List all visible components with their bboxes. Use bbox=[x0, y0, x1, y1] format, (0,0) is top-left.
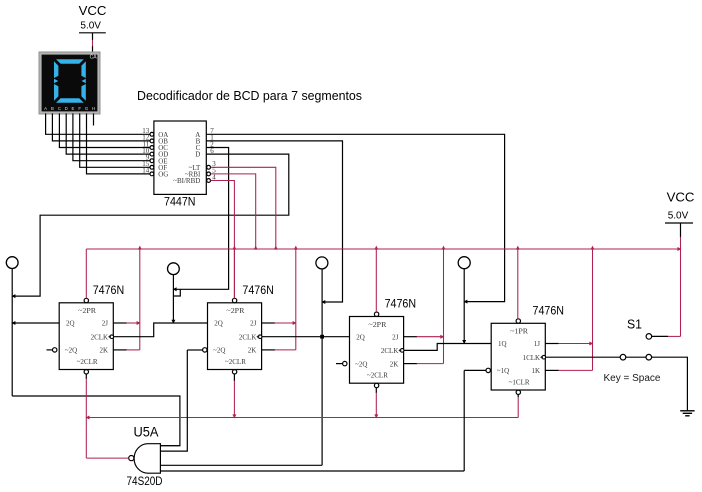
wire U4 J input bbox=[545, 343, 559, 345]
svg-text:~BI/RBD: ~BI/RBD bbox=[173, 177, 200, 185]
flip-flop U2 ~2PR bubble bbox=[232, 298, 236, 302]
junction clear bus left bbox=[86, 416, 90, 420]
svg-text:7476N: 7476N bbox=[385, 297, 417, 311]
junction VCC bus x=255.7 bbox=[254, 246, 258, 250]
ground symbol bbox=[680, 410, 694, 412]
wire display segment B to 7447N OB bbox=[52, 113, 150, 140]
wire display segment G to 7447N OG bbox=[87, 113, 151, 173]
svg-text:2Q: 2Q bbox=[214, 320, 223, 328]
svg-text:~1PR: ~1PR bbox=[510, 328, 528, 336]
junction C3 at FF2-FF3 clock wire bbox=[320, 335, 324, 339]
wire net C small step bbox=[173, 289, 180, 296]
7447N pin 3 (~LT) bubble bbox=[207, 165, 211, 169]
flip-flop U3 ~2PR bubble bbox=[374, 312, 378, 316]
wire C4 column down bbox=[463, 269, 465, 344]
wire net A: 7447N pin A to connector C4 column bbox=[206, 134, 504, 301]
power VCC V1 stub bbox=[92, 33, 94, 40]
display segment F bbox=[54, 61, 58, 78]
flip-flop U3 clock pin bubble bbox=[400, 349, 404, 353]
seven-segment display U1 frame bbox=[39, 52, 100, 114]
display segment D bbox=[56, 98, 84, 102]
junction net A at C4 column bbox=[463, 300, 467, 304]
svg-text:A: A bbox=[44, 106, 47, 111]
wire U2 J/K riser from VCC bus bbox=[295, 249, 297, 350]
wire display segment A to 7447N OA bbox=[46, 113, 151, 134]
wire display segment C to 7447N OC bbox=[59, 113, 150, 147]
power VCC V1 symbol bar bbox=[79, 32, 106, 34]
svg-text:~2CLR: ~2CLR bbox=[77, 358, 98, 366]
junction VCC bus x=592.5 bbox=[591, 246, 595, 250]
wire bus to switch throw bbox=[680, 249, 682, 336]
junction VCC bus x=275.8 bbox=[274, 246, 278, 250]
wire U3 K input bbox=[404, 363, 418, 365]
flip-flop U1 ~2CLR bubble bbox=[84, 370, 88, 374]
switch S1 throw contact top bbox=[646, 334, 652, 340]
connector C3 circle bbox=[316, 257, 328, 269]
wire U2 J input bbox=[262, 322, 276, 324]
display segment C bbox=[81, 84, 85, 101]
wire U2 K input bbox=[262, 349, 276, 351]
wire clear bus horizontal bbox=[86, 417, 518, 419]
7447N pin 12 (OB) bubble bbox=[150, 139, 154, 143]
7447N pin 4 (~BI/RBD) bubble bbox=[207, 179, 211, 183]
wire U4 1CLK to switch pole bbox=[545, 356, 620, 358]
junction VCC bus x=234.4 bbox=[232, 246, 236, 250]
svg-text:1J: 1J bbox=[534, 340, 541, 348]
wire clear bus up to U4 ~1CLR bbox=[517, 397, 519, 418]
flip-flop U3 ~2Q bubble bbox=[343, 361, 347, 365]
junction U4 J riser bbox=[589, 342, 593, 346]
wire net C: 7447N pin C to connector C2 column bbox=[173, 148, 228, 290]
svg-text:VCC: VCC bbox=[79, 3, 107, 18]
flip-flop U1 ~2Q bubble bbox=[53, 348, 57, 352]
display segment A bbox=[56, 59, 84, 63]
flip-flop U1 ~2PR bubble bbox=[84, 298, 88, 302]
7447N pin 10 (OD) bubble bbox=[150, 152, 154, 156]
svg-text:7476N: 7476N bbox=[93, 283, 125, 297]
flip-flop U2 ~2Q bubble bbox=[203, 348, 207, 352]
wire U2 2CLK to U3 2Q bbox=[262, 336, 350, 338]
connector C4 circle bbox=[458, 257, 470, 269]
junction C2 column at FF1-FF2 clock wire bbox=[171, 320, 175, 324]
svg-text:E: E bbox=[71, 106, 74, 111]
display pin H stub (unconnected) bbox=[93, 113, 95, 125]
wire U1 K input bbox=[113, 349, 127, 351]
svg-text:D: D bbox=[195, 151, 200, 159]
svg-text:~2Q: ~2Q bbox=[65, 347, 77, 355]
junction U1 J riser bbox=[137, 321, 141, 325]
svg-text:2J: 2J bbox=[392, 333, 399, 341]
svg-text:D: D bbox=[65, 106, 68, 111]
junction U2 J riser bbox=[293, 321, 297, 325]
svg-text:2K: 2K bbox=[390, 360, 399, 368]
wire NAND output to U1 ~2CLR bbox=[86, 457, 128, 459]
wire VCC to display CA pin bbox=[92, 40, 94, 47]
svg-text:1K: 1K bbox=[531, 367, 540, 375]
wire U1 ~PR to VCC bus bbox=[85, 249, 87, 298]
junction VCC bus x=517.8 bbox=[516, 246, 520, 250]
display segment B bbox=[81, 61, 85, 78]
7447N pin 11 (OC) bubble bbox=[150, 146, 154, 150]
wire U3 J/K riser from VCC bus bbox=[443, 249, 445, 364]
svg-text:H: H bbox=[92, 106, 95, 111]
wire C2 column down bbox=[172, 275, 174, 323]
7447N pin 5 (~RBI) bubble bbox=[207, 172, 211, 176]
power VCC V2 stub bbox=[680, 223, 682, 237]
svg-text:~2PR: ~2PR bbox=[78, 307, 96, 315]
wire NAND input 3 bbox=[160, 464, 322, 466]
flip-flop U2 clock pin bubble bbox=[258, 335, 262, 339]
svg-text:~2PR: ~2PR bbox=[226, 307, 244, 315]
wire ~RBI to VCC bus bbox=[211, 174, 256, 249]
decoder 7447N U2 box bbox=[154, 121, 206, 194]
wire U4 J/K riser from VCC bus bbox=[592, 249, 594, 370]
svg-text:U5A: U5A bbox=[134, 425, 159, 440]
svg-text:OG: OG bbox=[158, 171, 168, 179]
flip-flop U4 7476N box bbox=[491, 323, 545, 390]
svg-text:B: B bbox=[51, 106, 54, 111]
7447N pin 15 (OF) bubble bbox=[150, 165, 154, 169]
flip-flop U3 ~2CLR bubble bbox=[374, 383, 378, 387]
7447N pin 13 (OA) bubble bbox=[150, 132, 154, 136]
connector C2 circle bbox=[168, 263, 180, 275]
svg-text:S1: S1 bbox=[627, 316, 642, 331]
svg-text:C: C bbox=[58, 106, 61, 111]
svg-text:VCC: VCC bbox=[667, 190, 695, 205]
wire U2 ~PR to VCC bus bbox=[233, 249, 235, 298]
svg-text:2CLK: 2CLK bbox=[381, 347, 399, 355]
svg-text:2Q: 2Q bbox=[66, 320, 75, 328]
svg-text:2K: 2K bbox=[248, 347, 257, 355]
wire VCC bus horizontal bbox=[86, 248, 680, 250]
power VCC V2 symbol bar bbox=[665, 222, 693, 224]
wire display segment F to 7447N OF bbox=[80, 113, 150, 167]
wire net D: 7447N pin D to connector C1 column bbox=[12, 154, 289, 296]
connector C1 circle bbox=[6, 257, 18, 269]
junction VCC bus x=443.5 bbox=[442, 246, 446, 250]
wire U3 ~PR to VCC bus bbox=[375, 249, 377, 312]
wire U1 ~CLR to NAND output bbox=[85, 374, 87, 379]
svg-text:Decodificador de BCD para 7 se: Decodificador de BCD para 7 segmentos bbox=[137, 88, 362, 103]
switch S1 bottom contact bbox=[646, 354, 652, 360]
wire ~LT to VCC bus bbox=[211, 167, 276, 249]
wire U1 J input bbox=[113, 322, 127, 324]
svg-text:7447N: 7447N bbox=[164, 194, 196, 208]
svg-text:F: F bbox=[78, 106, 81, 111]
flip-flop U4 clock pin bubble bbox=[542, 355, 546, 359]
wire ~BI/RBD to VCC bus and FF2 preset bbox=[211, 181, 235, 299]
wire U1 ~2Q stub (unconnected) bbox=[47, 349, 53, 351]
wire NAND input 2 stub bbox=[160, 450, 188, 452]
switch S1 pole contact bbox=[620, 354, 626, 360]
wire C3 column down to NAND input 3 bbox=[321, 269, 323, 465]
wire switch to ground bbox=[652, 357, 688, 410]
NAND gate U5A body bbox=[134, 444, 160, 474]
flip-flop U4 clock pin arrow bbox=[540, 355, 543, 359]
wire net B: 7447N pin B to connector C3 column bbox=[206, 141, 342, 302]
display segment G right tip bbox=[82, 79, 86, 83]
flip-flop U4 ~1PR bubble bbox=[516, 319, 520, 323]
flip-flop U3 clock pin arrow bbox=[398, 348, 401, 352]
wire U2 ~2Q to NAND input 2 bbox=[187, 349, 202, 351]
svg-text:2CLK: 2CLK bbox=[91, 333, 109, 341]
7447N pin 9 (OE) bubble bbox=[150, 159, 154, 163]
svg-text:~1CLR: ~1CLR bbox=[509, 378, 530, 386]
wire U1 J/K riser from VCC bus bbox=[139, 249, 141, 350]
wire display segment E to 7447N OE bbox=[73, 113, 150, 160]
svg-text:~2Q: ~2Q bbox=[355, 360, 367, 368]
svg-text:CA: CA bbox=[90, 54, 98, 60]
wire U1 2CLK to U2 2Q bbox=[113, 323, 207, 337]
flip-flop U2 clock pin arrow bbox=[256, 335, 259, 339]
flip-flop U1 clock pin bubble bbox=[110, 335, 114, 339]
junction C4 at FF3-FF4 clock wire bbox=[462, 340, 466, 344]
svg-text:1Q: 1Q bbox=[498, 340, 507, 348]
svg-text:1CLK: 1CLK bbox=[523, 354, 541, 362]
wire U4 ~1Q to NAND input 4 bbox=[464, 369, 486, 371]
NAND gate U5A output bubble bbox=[129, 456, 134, 461]
svg-text:~2CLR: ~2CLR bbox=[225, 358, 246, 366]
svg-text:5.0V: 5.0V bbox=[80, 21, 101, 32]
switch S1 lever bbox=[626, 356, 646, 358]
wire U4 ~PR to VCC bus bbox=[517, 249, 519, 319]
svg-text:~2PR: ~2PR bbox=[368, 321, 386, 329]
svg-text:5.0V: 5.0V bbox=[668, 210, 689, 221]
junction VCC bus x=376.3 bbox=[374, 246, 378, 250]
flip-flop U3 7476N box bbox=[350, 317, 404, 384]
wire C1 column down bbox=[11, 269, 13, 397]
svg-text:7476N: 7476N bbox=[533, 304, 565, 318]
junction VCC bus x=139.8 bbox=[138, 246, 142, 250]
wire NAND input 1 stub bbox=[160, 445, 180, 447]
flip-flop U4 ~1Q bubble bbox=[486, 368, 490, 372]
svg-text:14: 14 bbox=[142, 167, 150, 175]
wire U3 ~2Q stub (unconnected) bbox=[336, 363, 343, 365]
svg-text:74S20D: 74S20D bbox=[127, 474, 163, 488]
junction net D at C1 column bbox=[11, 294, 15, 298]
junction net C at C2 column bbox=[173, 287, 177, 291]
7447N pin 14 (OG) bubble bbox=[150, 172, 154, 176]
wire U2 ~CLR to clear bus bbox=[233, 374, 235, 381]
junction VCC bus x=295.8 bbox=[294, 246, 298, 250]
junction VCC bus right corner bbox=[677, 247, 681, 251]
display segment E bbox=[54, 84, 58, 101]
wire U3 ~CLR to clear bus bbox=[375, 388, 377, 393]
svg-text:~2Q: ~2Q bbox=[213, 347, 225, 355]
svg-text:7476N: 7476N bbox=[242, 283, 274, 297]
wire U4 K input bbox=[545, 369, 559, 371]
wire U3 2CLK to U4 1Q bbox=[404, 344, 492, 351]
junction C1 at FF1 2Q wire bbox=[11, 321, 15, 325]
wire VCC V2 to bus bbox=[680, 237, 682, 249]
display segment G left tip bbox=[54, 79, 58, 83]
svg-text:2K: 2K bbox=[99, 347, 108, 355]
flip-flop U4 ~1CLR bubble bbox=[516, 390, 520, 394]
svg-text:2CLK: 2CLK bbox=[239, 333, 257, 341]
junction U3 J riser bbox=[440, 335, 444, 339]
wire U3 J input bbox=[404, 336, 418, 338]
svg-text:2Q: 2Q bbox=[356, 333, 365, 341]
wire NAND input 4 bbox=[160, 470, 464, 472]
flip-flop U2 7476N box bbox=[208, 303, 262, 370]
junction net B at C3 column bbox=[321, 300, 325, 304]
svg-text:~1Q: ~1Q bbox=[497, 367, 509, 375]
svg-text:2J: 2J bbox=[250, 320, 257, 328]
wire display segment D to 7447N OD bbox=[66, 113, 150, 154]
flip-flop U1 clock pin arrow bbox=[108, 335, 111, 339]
flip-flop U1 7476N box bbox=[59, 303, 113, 370]
svg-text:Key = Space: Key = Space bbox=[604, 373, 661, 384]
wire C1 to NAND input 1 bbox=[12, 396, 180, 446]
svg-text:~2CLR: ~2CLR bbox=[367, 372, 388, 380]
wire U1 2Q to connector C1 column bbox=[12, 322, 59, 324]
svg-text:2J: 2J bbox=[102, 320, 109, 328]
flip-flop U2 ~2CLR bubble bbox=[232, 370, 236, 374]
